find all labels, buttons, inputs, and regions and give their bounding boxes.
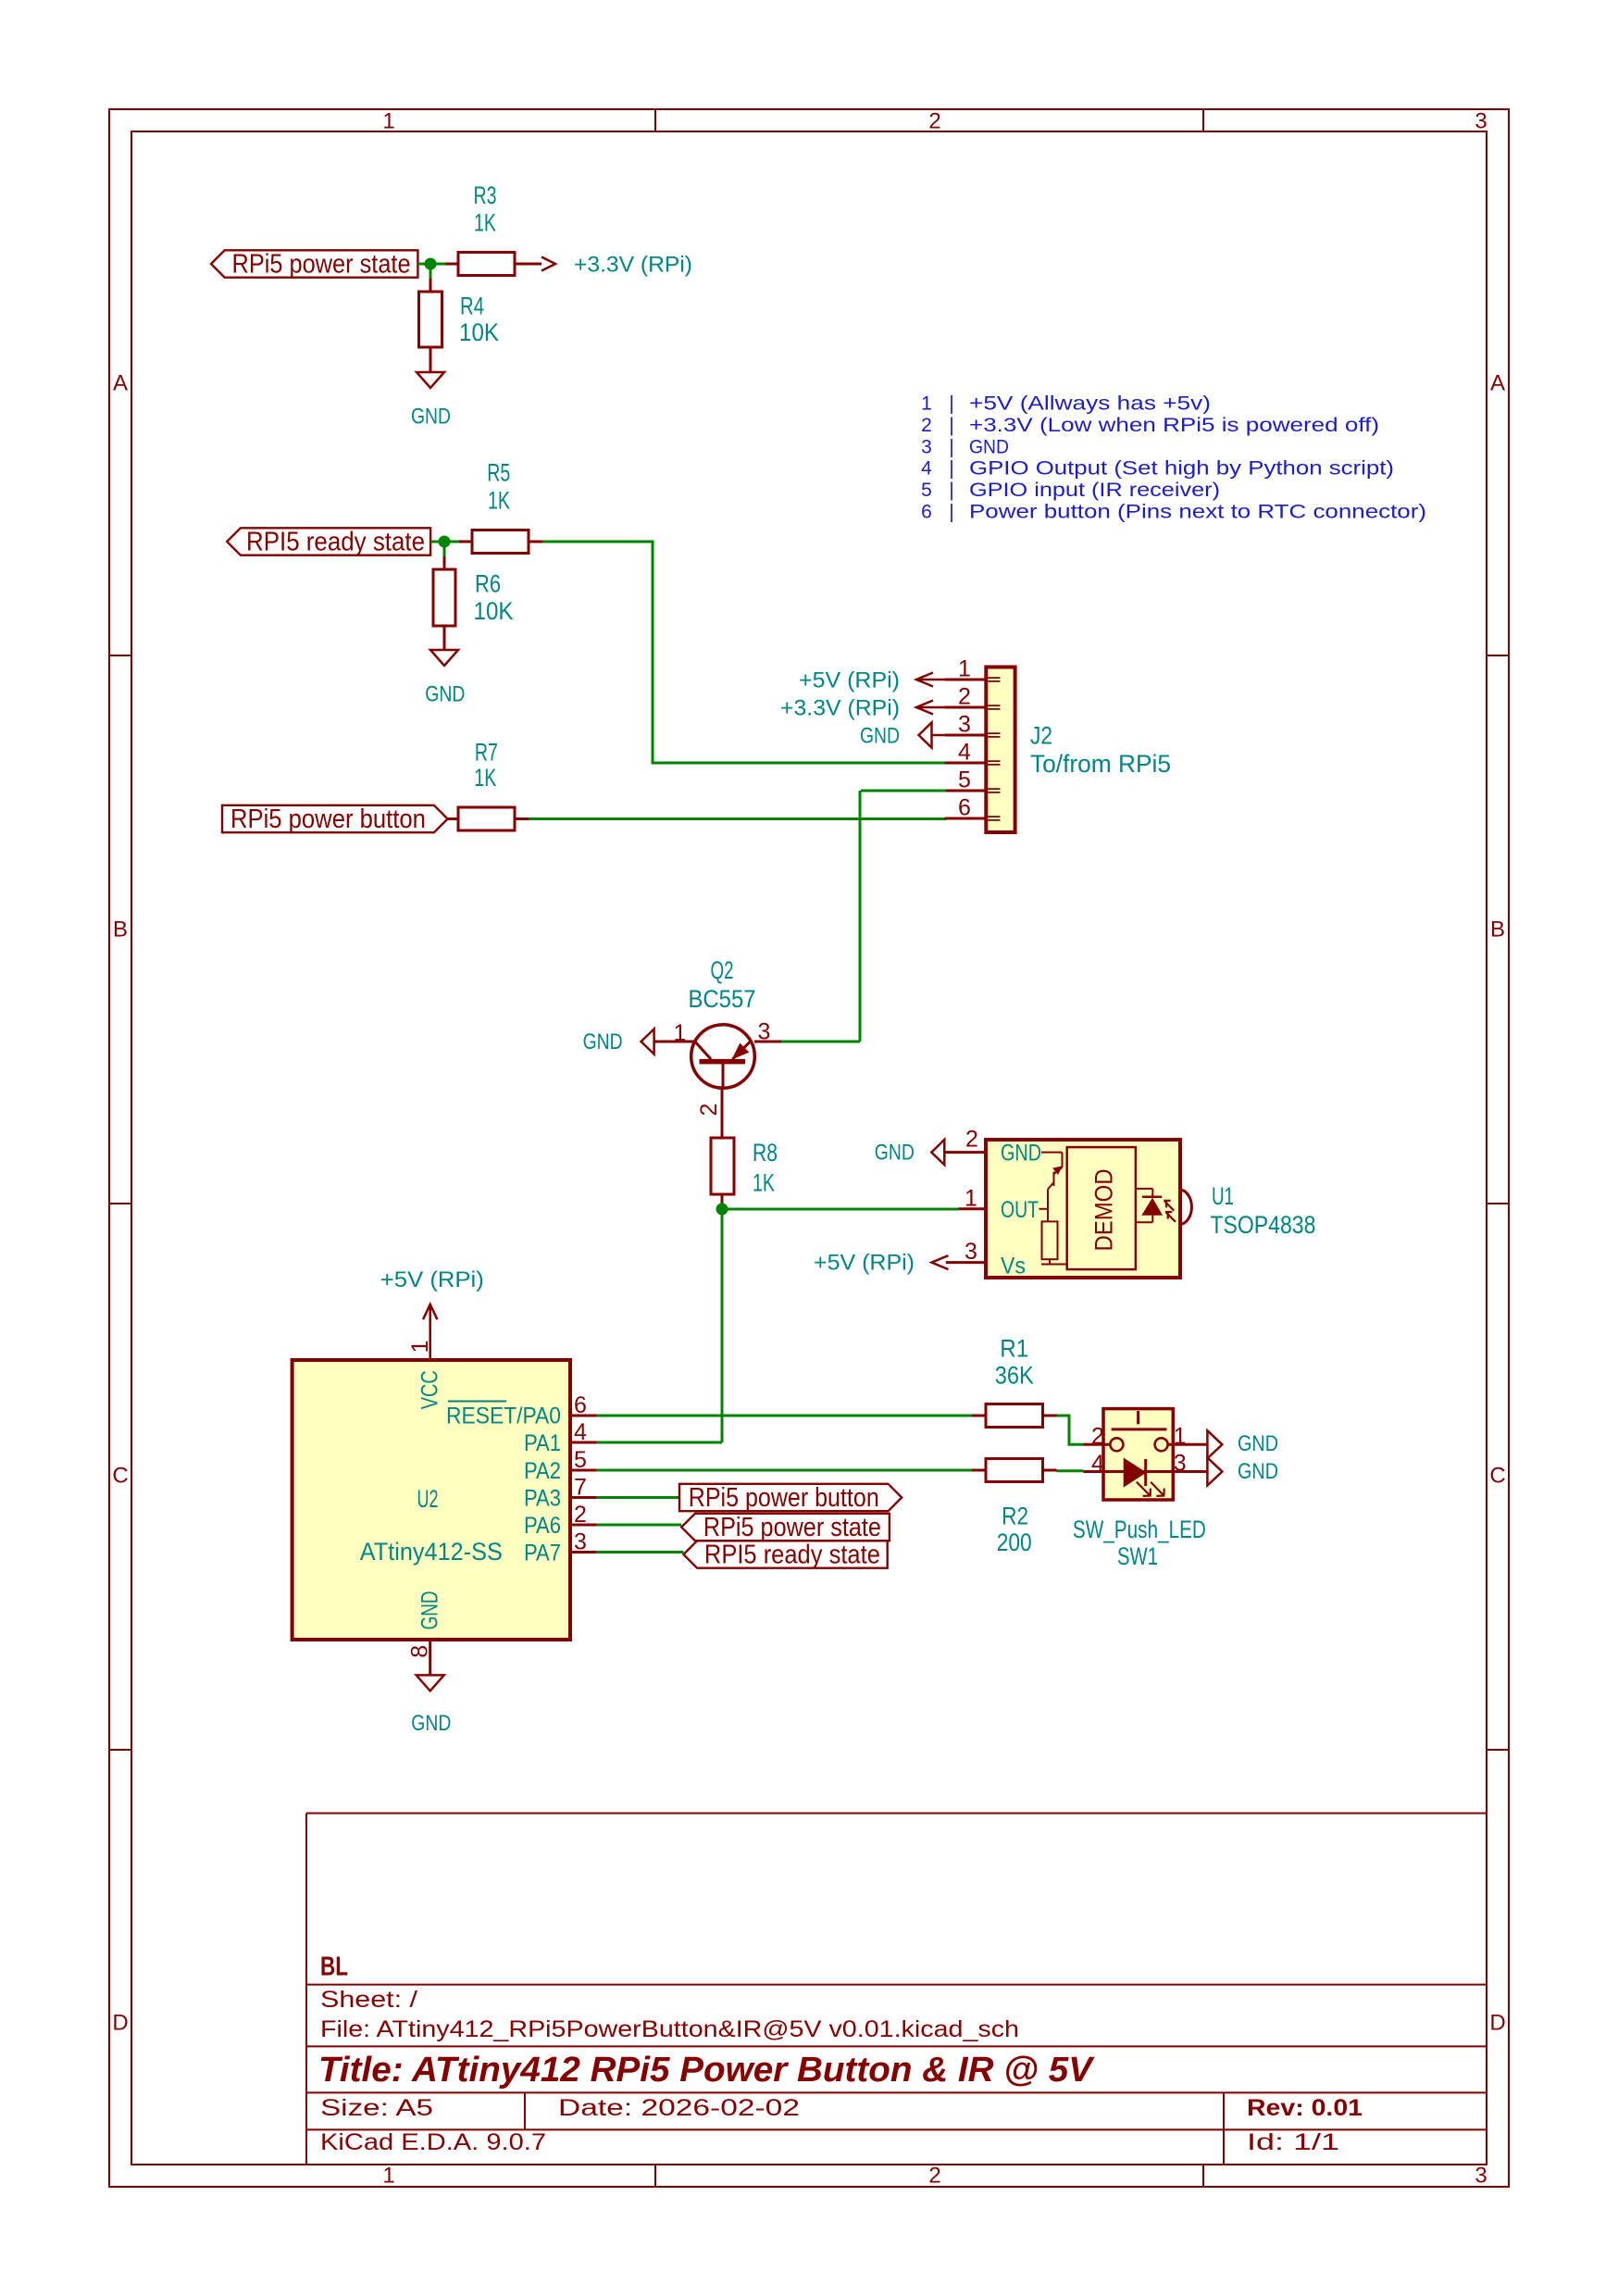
svg-text:+3.3V (RPi): +3.3V (RPi)	[780, 696, 900, 721]
row label C left	[112, 1464, 128, 1489]
pin 2 J2	[958, 684, 971, 710]
wire	[443, 542, 446, 556]
pin 2 SW1	[1091, 1423, 1104, 1449]
wire	[529, 817, 946, 820]
wire	[430, 541, 459, 543]
row label B left	[113, 917, 128, 942]
ground at J2 pin3	[860, 722, 945, 748]
pin 3 Q2	[758, 1019, 771, 1045]
pin 2 Q2	[696, 1104, 722, 1117]
power +5V (RPi) at U2 VCC	[380, 1267, 484, 1360]
svg-text:Date: 2026-02-02: Date: 2026-02-02	[558, 2095, 800, 2121]
svg-text:3: 3	[1174, 1451, 1187, 1477]
column label 2 top	[928, 109, 940, 134]
row label A right	[1490, 371, 1505, 396]
pin 5 U2	[570, 1447, 597, 1473]
svg-text:SW1: SW1	[1117, 1542, 1158, 1570]
svg-text:2: 2	[928, 109, 940, 134]
svg-text:4: 4	[921, 458, 932, 480]
pin 1 Q2	[674, 1020, 687, 1046]
svg-text:1: 1	[958, 656, 971, 682]
wire	[597, 1496, 679, 1499]
row label A left	[113, 371, 128, 396]
svg-text:R1: R1	[1000, 1335, 1028, 1363]
svg-text:10K: 10K	[459, 318, 499, 346]
svg-text:1K: 1K	[474, 764, 496, 792]
svg-text:10K: 10K	[474, 597, 514, 625]
node junction	[716, 1204, 728, 1216]
pin 6 J2	[958, 795, 971, 821]
hierarchical label RPi5 power state at U2	[597, 1513, 890, 1542]
svg-text:+5V (RPi): +5V (RPi)	[799, 668, 900, 693]
note line 4	[921, 458, 1394, 480]
svg-text:5: 5	[958, 767, 971, 793]
note line 3	[921, 437, 1009, 458]
IR receiver U1 TSOP4838	[986, 1140, 1315, 1279]
svg-text:A: A	[113, 371, 128, 396]
svg-text:1: 1	[382, 109, 394, 134]
svg-text:R3: R3	[474, 181, 497, 209]
svg-text:|: |	[949, 502, 953, 523]
pin 3 SW1	[1174, 1451, 1187, 1477]
svg-text:SW_Push_LED: SW_Push_LED	[1073, 1516, 1206, 1543]
title block BL	[320, 1953, 348, 1982]
column label 1 bottom	[382, 2164, 394, 2189]
title block Title	[318, 2051, 1095, 2090]
wire	[597, 1524, 681, 1527]
svg-text:BL: BL	[320, 1953, 348, 1982]
pin 4 SW1	[1091, 1451, 1104, 1477]
column label 2 bottom	[928, 2164, 940, 2189]
pin 2 U1	[944, 1127, 986, 1153]
svg-text:To/from RPi5: To/from RPi5	[1030, 750, 1171, 778]
title block Id	[1247, 2129, 1339, 2155]
svg-text:3: 3	[758, 1019, 771, 1045]
svg-text:6: 6	[921, 502, 932, 523]
svg-text:A: A	[1490, 371, 1505, 396]
wire	[861, 790, 946, 792]
switch SW1 SW_Push_LED	[1073, 1409, 1208, 1570]
svg-text:GPIO input (IR receiver): GPIO input (IR receiver)	[969, 480, 1220, 501]
svg-text:Power button (Pins next to RTC: Power button (Pins next to RTC connector…	[969, 502, 1426, 523]
svg-text:1: 1	[1174, 1423, 1187, 1449]
title block Size	[320, 2095, 433, 2121]
svg-text:2: 2	[696, 1104, 722, 1117]
wire	[722, 1208, 958, 1211]
svg-text:+5V (RPi): +5V (RPi)	[380, 1267, 484, 1292]
connector J2	[945, 668, 1015, 833]
svg-text:|: |	[949, 480, 953, 501]
svg-text:RPi5 power button: RPi5 power button	[230, 805, 426, 834]
resistor R1	[972, 1335, 1057, 1428]
svg-text:GND: GND	[411, 405, 451, 430]
svg-text:6: 6	[574, 1392, 587, 1418]
resistor R3	[445, 181, 541, 276]
title block Rev	[1247, 2095, 1363, 2121]
resistor R4	[419, 279, 500, 372]
svg-text:C: C	[112, 1464, 128, 1489]
svg-text:GPIO Output (Set high by Pytho: GPIO Output (Set high by Python script)	[969, 458, 1394, 480]
svg-text:1K: 1K	[753, 1169, 775, 1197]
svg-text:R2: R2	[1002, 1503, 1028, 1530]
note line 5	[921, 480, 1220, 501]
label J2 To/from RPi5	[1030, 722, 1171, 778]
ground at U1 pin2	[875, 1140, 945, 1166]
svg-text:7: 7	[574, 1475, 587, 1501]
title block	[306, 1814, 1487, 2165]
power +5V (RPi) at J2 pin1	[799, 668, 945, 693]
svg-text:6: 6	[958, 795, 971, 821]
pin 3 U2	[570, 1529, 597, 1555]
svg-text:RPI5 ready state: RPI5 ready state	[704, 1541, 880, 1570]
svg-text:OUT: OUT	[1001, 1197, 1039, 1223]
column label 3 bottom	[1475, 2164, 1487, 2189]
power +5V (RPi) at U1 pin3	[814, 1251, 949, 1276]
svg-text:4: 4	[1091, 1451, 1104, 1477]
svg-text:1K: 1K	[488, 487, 510, 515]
pin 3 J2	[958, 712, 971, 738]
pin 8 U2	[407, 1640, 433, 1675]
row label D left	[112, 2011, 128, 2036]
svg-text:File: ATtiny412_RPi5PowerButto: File: ATtiny412_RPi5PowerButton&IR@5V v0…	[320, 2016, 1019, 2042]
svg-text:B: B	[1490, 917, 1505, 942]
svg-text:RPI5 ready state: RPI5 ready state	[246, 528, 425, 557]
svg-text:PA7: PA7	[524, 1541, 561, 1566]
svg-text:|: |	[949, 393, 953, 415]
title block KiCad version	[320, 2129, 546, 2155]
wire	[597, 1441, 722, 1444]
svg-text:5: 5	[921, 480, 932, 501]
svg-text:2: 2	[921, 415, 932, 436]
resistor R7	[448, 738, 529, 830]
ground at Q2 pin1	[583, 1029, 654, 1054]
pin 7 U2	[570, 1475, 597, 1501]
svg-text:5: 5	[574, 1447, 587, 1473]
svg-text:2: 2	[1091, 1423, 1104, 1449]
svg-text:PA3: PA3	[524, 1486, 561, 1512]
column label 3 top	[1475, 109, 1487, 134]
pin 2 U2	[570, 1502, 597, 1528]
svg-text:GND: GND	[425, 682, 465, 707]
svg-text:C: C	[1489, 1464, 1505, 1489]
svg-text:36K: 36K	[995, 1361, 1034, 1389]
wire	[1057, 1469, 1084, 1472]
hierarchical label RPI5 ready state at U2	[597, 1541, 888, 1570]
pin 3 U1	[946, 1239, 986, 1265]
title block Sheet	[320, 1987, 417, 2013]
svg-text:RPi5 power state: RPi5 power state	[232, 250, 411, 280]
svg-text:GND: GND	[1238, 1459, 1278, 1484]
svg-text:Title: ATtiny412 RPi5 Power Bu: Title: ATtiny412 RPi5 Power Button & IR …	[318, 2051, 1095, 2090]
svg-text:R8: R8	[753, 1139, 778, 1167]
svg-text:3: 3	[1475, 2164, 1487, 2189]
wire	[1057, 1416, 1084, 1444]
transistor Q2 BC557	[654, 956, 781, 1088]
wire	[429, 264, 432, 279]
resistor R2	[972, 1459, 1057, 1557]
ground	[411, 372, 451, 430]
microcontroller U2 ATtiny412-SS	[292, 1360, 570, 1640]
svg-text:VCC: VCC	[417, 1370, 443, 1409]
svg-text:PA1: PA1	[524, 1430, 561, 1456]
svg-text:RESET/PA0: RESET/PA0	[446, 1404, 561, 1429]
resistor R5	[459, 459, 542, 554]
svg-text:PA2: PA2	[524, 1458, 561, 1484]
wire	[721, 1209, 724, 1442]
pin 4 J2	[958, 740, 971, 766]
svg-text:GND: GND	[1001, 1141, 1041, 1167]
svg-text:8: 8	[407, 1645, 433, 1658]
power +3.3V (RPi) at J2 pin2	[780, 696, 945, 721]
svg-text:2: 2	[965, 1127, 978, 1153]
svg-text:4: 4	[958, 740, 971, 766]
note line 2	[921, 415, 1379, 436]
row label D right	[1489, 2011, 1505, 2036]
svg-text:ATtiny412-SS: ATtiny412-SS	[360, 1538, 503, 1566]
svg-text:200: 200	[997, 1529, 1032, 1556]
svg-text:|: |	[949, 415, 953, 436]
hierarchical label RPI5 ready state	[227, 528, 430, 557]
svg-text:1: 1	[674, 1020, 687, 1046]
svg-text:Id: 1/1: Id: 1/1	[1247, 2129, 1339, 2155]
svg-text:2: 2	[958, 684, 971, 710]
row label C right	[1489, 1464, 1505, 1489]
svg-text:Q2: Q2	[711, 956, 734, 984]
svg-text:GND: GND	[1238, 1431, 1278, 1456]
note line 1	[921, 393, 1211, 415]
svg-text:|: |	[949, 437, 953, 458]
pin 6 U2	[570, 1392, 597, 1418]
svg-text:|: |	[949, 458, 953, 480]
svg-text:U2: U2	[417, 1485, 439, 1513]
ground at U2 pin8	[411, 1675, 451, 1736]
svg-text:GND: GND	[583, 1029, 623, 1054]
svg-text:4: 4	[574, 1419, 587, 1445]
svg-text:BC557: BC557	[689, 985, 756, 1013]
svg-text:GND: GND	[875, 1141, 915, 1166]
row label B right	[1490, 917, 1505, 942]
svg-text:+3.3V (RPi): +3.3V (RPi)	[574, 253, 692, 278]
pin 1 U1	[958, 1186, 986, 1212]
sheet border frame	[109, 109, 1509, 2187]
pin 1 SW1	[1174, 1423, 1187, 1449]
svg-text:Sheet: /: Sheet: /	[320, 1987, 417, 2013]
resistor R6	[433, 556, 514, 650]
svg-text:B: B	[113, 917, 128, 942]
ground at SW1 pin1	[1207, 1430, 1278, 1458]
pin 4 U2	[570, 1419, 597, 1445]
wire	[597, 1415, 972, 1417]
ground	[425, 650, 465, 707]
svg-text:U1: U1	[1212, 1182, 1234, 1210]
hierarchical label RPi5 power button at U2	[679, 1483, 902, 1513]
title block File	[320, 2016, 1019, 2042]
svg-text:TSOP4838: TSOP4838	[1210, 1211, 1315, 1239]
svg-text:3: 3	[921, 437, 932, 458]
node junction	[425, 258, 437, 270]
svg-text:Rev: 0.01: Rev: 0.01	[1247, 2095, 1363, 2121]
svg-text:R7: R7	[475, 738, 498, 766]
svg-text:GND: GND	[417, 1591, 443, 1629]
svg-text:PA6: PA6	[524, 1513, 561, 1539]
svg-text:KiCad E.D.A. 9.0.7: KiCad E.D.A. 9.0.7	[320, 2129, 546, 2155]
svg-text:1K: 1K	[474, 209, 496, 237]
pin 5 J2	[958, 767, 971, 793]
svg-text:3: 3	[1475, 109, 1487, 134]
resistor R8	[711, 1088, 778, 1209]
svg-text:J2: J2	[1030, 722, 1052, 750]
pin 1 J2	[958, 656, 971, 682]
svg-text:+5V (Allways has +5v): +5V (Allways has +5v)	[969, 393, 1211, 415]
note line 6	[921, 502, 1426, 523]
ground at SW1 pin3	[1207, 1458, 1278, 1486]
svg-text:RPi5 power button: RPi5 power button	[689, 1483, 879, 1513]
power +3.3V (RPi)	[541, 253, 692, 278]
hierarchical label RPi5 power state	[211, 250, 417, 280]
wire	[597, 1469, 972, 1472]
svg-text:D: D	[1489, 2011, 1505, 2036]
svg-text:3: 3	[574, 1529, 587, 1555]
wire	[859, 791, 862, 1042]
svg-text:1: 1	[382, 2164, 394, 2189]
node junction	[439, 536, 451, 548]
svg-text:2: 2	[574, 1502, 587, 1528]
svg-text:1: 1	[407, 1340, 433, 1353]
svg-text:+5V (RPi): +5V (RPi)	[814, 1251, 915, 1276]
svg-text:+3.3V (Low when RPi5 is powere: +3.3V (Low when RPi5 is powered off)	[969, 415, 1379, 436]
pin 1 U2	[407, 1340, 433, 1353]
wire	[597, 1551, 684, 1554]
svg-text:Size: A5: Size: A5	[320, 2095, 433, 2121]
svg-text:2: 2	[928, 2164, 940, 2189]
wire	[417, 263, 445, 266]
title block Date	[558, 2095, 800, 2121]
column label 1 top	[382, 109, 394, 134]
svg-text:RPi5 power state: RPi5 power state	[703, 1513, 881, 1542]
svg-text:3: 3	[965, 1239, 977, 1265]
svg-text:R4: R4	[460, 293, 484, 320]
svg-text:DEMOD: DEMOD	[1089, 1169, 1117, 1252]
wire	[781, 1041, 860, 1043]
svg-text:GND: GND	[969, 437, 1009, 458]
svg-text:1: 1	[921, 393, 932, 415]
svg-text:D: D	[112, 2011, 128, 2036]
svg-text:GND: GND	[860, 724, 900, 749]
wire	[542, 542, 946, 763]
svg-text:Vs: Vs	[1001, 1254, 1026, 1279]
svg-text:GND: GND	[411, 1711, 451, 1736]
hierarchical label RPi5 power button	[222, 805, 448, 834]
svg-text:R5: R5	[487, 459, 510, 487]
svg-text:R6: R6	[475, 570, 501, 598]
svg-text:3: 3	[958, 712, 971, 738]
